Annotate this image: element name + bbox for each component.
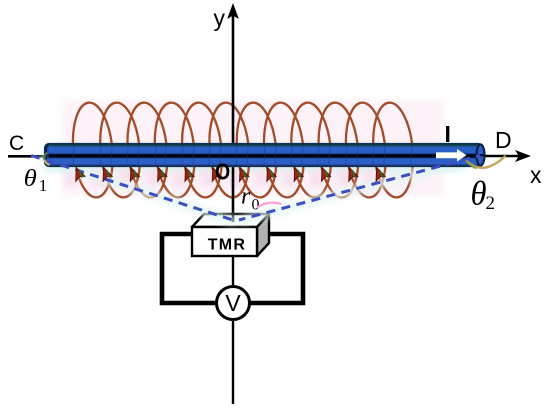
svg-text:1: 1 (39, 176, 48, 195)
field arrow B8 (262, 166, 276, 182)
svg-text:y: y (214, 5, 226, 31)
conductor left end cap (46, 145, 49, 166)
coil turn 9 (288, 101, 335, 199)
conductor bottom edge tint (48, 164, 478, 166)
svg-text:0: 0 (252, 197, 260, 214)
field arrow B1 (71, 166, 85, 182)
pink angle arc at sensor (257, 203, 282, 208)
voltmeter V (217, 287, 250, 320)
lead below voltmeter (y-axis continuation) (232, 319, 234, 404)
angle arc theta1 at C (44, 153, 47, 161)
dashed sight line from C to sensor (31, 156, 236, 222)
field arrow B5 (180, 166, 194, 182)
jpeg cyan streak along right dashed line (239, 158, 474, 221)
coil turn 8 (260, 101, 307, 199)
lead TMR to voltmeter (232, 256, 234, 287)
jpeg cyan streak along left dashed line (40, 158, 236, 222)
coil turn 6 (206, 101, 253, 199)
coil turn 11 (342, 101, 389, 199)
coil turn 3 (124, 101, 171, 199)
conductor coil-crossing shadow lines (73, 145, 412, 165)
field arrow B10 (317, 166, 331, 182)
field arrow B4 (153, 166, 167, 182)
field arrow B3 (126, 166, 140, 182)
right circuit wire (250, 234, 303, 303)
field arrow B12 (371, 166, 385, 182)
coil turn 5 (178, 101, 225, 199)
svg-text:TMR: TMR (208, 237, 247, 254)
x-axis core through conductor (46, 154, 482, 159)
coil turn 12 (370, 101, 417, 199)
current arrow I (436, 149, 467, 162)
jpeg cyan strip below wire (44, 165, 464, 173)
y-axis (232, 14, 235, 222)
coil turn 7 (233, 101, 280, 199)
conductor top edge shading (48, 145, 480, 147)
coil turn 4 (151, 101, 198, 199)
coil turn 1 (69, 101, 116, 199)
svg-text:θ: θ (471, 175, 487, 213)
TMR sensor box (192, 214, 269, 256)
svg-text:2: 2 (486, 193, 496, 214)
svg-text:x: x (530, 162, 542, 188)
circuit loop wires (162, 234, 303, 303)
field arrow B2 (98, 166, 112, 182)
field arrow B9 (289, 166, 303, 182)
svg-text:r: r (241, 184, 251, 210)
coil turns (12 ellipses) (69, 101, 416, 199)
svg-text:O: O (215, 159, 230, 185)
svg-text:θ: θ (24, 164, 37, 191)
x-axis arrowhead (515, 150, 531, 162)
field arrow B7 (235, 166, 249, 182)
coil turn 10 (315, 101, 362, 199)
svg-text:C: C (9, 132, 24, 155)
angle arc theta2 at D (466, 156, 506, 168)
x-axis right segment (483, 155, 527, 158)
conductor wire (cylinder) (45, 144, 482, 166)
green coil ticks near arrows (80, 171, 383, 178)
x-axis left segment (8, 155, 50, 158)
svg-text:D: D (495, 127, 512, 153)
conductor right end cap (477, 144, 485, 165)
field arrow B6 (208, 166, 222, 182)
field direction arrows on coil turns (71, 166, 386, 182)
jpeg pink haze band behind coils (62, 100, 444, 196)
coil turn 2 (97, 101, 144, 199)
svg-text:V: V (225, 290, 241, 316)
y-axis arrowhead (227, 3, 239, 19)
dashed sight line from D to sensor (239, 156, 480, 221)
left circuit wire (162, 234, 216, 303)
svg-text:I: I (445, 121, 451, 147)
green tint on theta2 arc (466, 161, 477, 169)
jpeg pink patches under wire (64, 170, 378, 186)
field arrow B11 (344, 166, 358, 182)
